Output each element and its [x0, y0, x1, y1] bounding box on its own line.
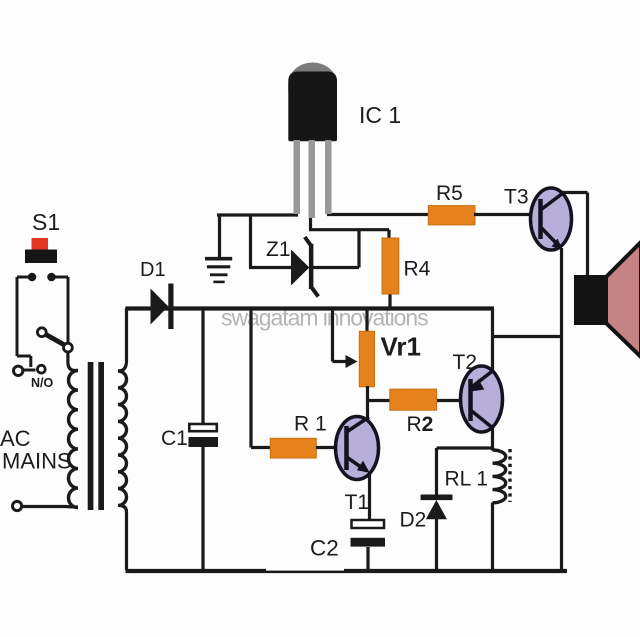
- wire D2 to bus: [435, 518, 438, 570]
- IC1 package: [288, 63, 337, 219]
- wire Vr1 bottom to T1 collector: [366, 386, 369, 424]
- transistor T1: [336, 417, 379, 521]
- wire Vr1 top riser: [365, 309, 368, 334]
- white patch on bus near C2: [266, 566, 344, 571]
- wire D2 riser: [435, 448, 438, 495]
- wire S1 right branch: [67, 277, 70, 343]
- switch S1 pushbutton: [17, 238, 68, 281]
- label C1: [161, 427, 188, 450]
- svg-text:MAINS: MAINS: [2, 449, 72, 474]
- wire relay top branch: [437, 446, 493, 449]
- transformer T/F: [69, 362, 127, 510]
- diode D1: [151, 284, 174, 330]
- svg-text:R5: R5: [436, 182, 463, 205]
- transformer secondary riser bottom: [119, 506, 127, 571]
- label N/O: [31, 376, 54, 390]
- wire right vertical to T2 collector: [491, 309, 494, 371]
- capacitor C1: [189, 310, 219, 570]
- potentiometer Vr1: [359, 331, 374, 387]
- svg-text:AC: AC: [0, 426, 31, 451]
- svg-text:C1: C1: [161, 427, 188, 450]
- wire S1 left branch: [17, 277, 31, 367]
- wire lead1 horizontal: [217, 213, 298, 216]
- svg-text:S1: S1: [32, 209, 60, 235]
- label R5: [436, 182, 463, 205]
- wire node to R2: [368, 399, 392, 402]
- svg-text:R 1: R 1: [294, 413, 327, 436]
- label C2: [310, 536, 339, 561]
- diode D2: [421, 495, 453, 520]
- label T3: [504, 186, 529, 209]
- wire Z1 cathode: [313, 230, 359, 268]
- transformer secondary riser top: [119, 308, 127, 371]
- label S1: [32, 209, 60, 235]
- label Vr1: [381, 332, 422, 362]
- resistor R1: [270, 438, 316, 458]
- transistor T2: [461, 366, 503, 451]
- resistor R4: [382, 238, 399, 294]
- svg-text:IC 1: IC 1: [359, 102, 401, 128]
- svg-text:N/O: N/O: [31, 376, 54, 390]
- label D2: [400, 509, 427, 532]
- wiper arrow into Vr1: [333, 309, 358, 368]
- wire R4 bottom: [388, 293, 391, 309]
- wire positive rail: [126, 306, 495, 310]
- wire bottom bus: [126, 569, 568, 573]
- N/O contact terminals: [14, 365, 46, 375]
- wire IC pin2 to R4: [309, 216, 389, 240]
- label D1: [140, 259, 166, 281]
- label RL 1: [445, 468, 489, 491]
- speaker: [574, 242, 640, 357]
- zener Z1: [291, 237, 318, 297]
- label T2: [453, 351, 478, 374]
- wire IC pin3 to R5: [327, 213, 429, 216]
- ground: [205, 259, 232, 282]
- label R2: [407, 413, 434, 436]
- wire R5 to T3 base: [474, 213, 532, 216]
- svg-text:C2: C2: [310, 536, 339, 561]
- svg-text:R4: R4: [404, 258, 431, 281]
- wire primary bottom to AC terminal: [22, 505, 78, 509]
- label R4: [404, 258, 431, 281]
- wire R1 riser: [251, 310, 271, 448]
- wire ground drop: [218, 215, 221, 258]
- svg-text:T2: T2: [453, 351, 478, 374]
- label R 1: [294, 413, 327, 436]
- watermark swagatam innovations: [221, 305, 428, 331]
- wire T2 collector branch to T3 emitter: [493, 335, 562, 338]
- relay coil RL1: [493, 450, 506, 570]
- svg-text:Vr1: Vr1: [381, 332, 422, 362]
- wire R1 to T1 base: [316, 446, 338, 449]
- capacitor C2: [351, 520, 386, 570]
- AC terminal circle: [13, 501, 22, 510]
- relay core dashed line: [508, 449, 511, 502]
- wire Z1 anode riser: [249, 214, 292, 268]
- svg-text:T1: T1: [345, 491, 370, 514]
- svg-text:RL 1: RL 1: [445, 468, 489, 491]
- label AC MAINS: [0, 426, 72, 474]
- svg-text:D2: D2: [400, 509, 427, 532]
- svg-text:Z1: Z1: [266, 238, 291, 261]
- wire R2 to T2 base: [437, 399, 462, 402]
- svg-text:R2: R2: [407, 413, 434, 436]
- resistor R2: [390, 389, 437, 410]
- label Z1: [266, 238, 291, 261]
- label T1: [345, 491, 370, 514]
- svg-text:T3: T3: [504, 186, 529, 209]
- switch lever: [37, 328, 72, 352]
- wire primary top to lever: [68, 350, 78, 371]
- transistor T3: [531, 188, 588, 570]
- svg-text:D1: D1: [140, 259, 166, 281]
- label IC 1: [359, 102, 401, 128]
- resistor R5: [428, 206, 475, 225]
